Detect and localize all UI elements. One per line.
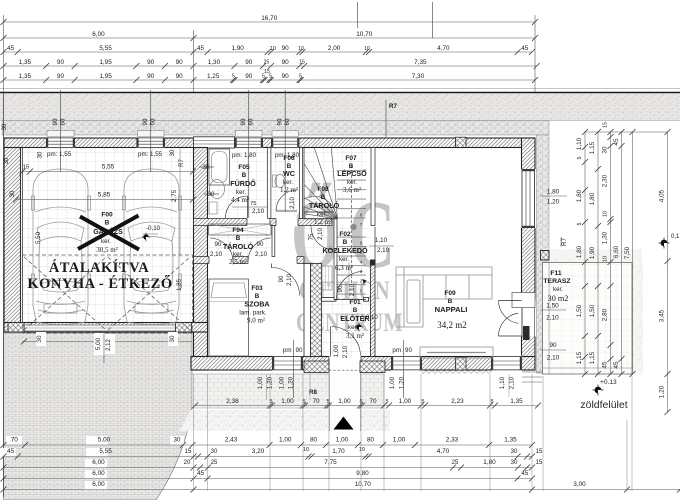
svg-text:7,30: 7,30 — [412, 73, 425, 80]
window sill bath — [236, 131, 263, 137]
svg-text:30: 30 — [203, 164, 210, 171]
storage F04 floor tiles — [208, 226, 273, 257]
pebble insulation band right side of building — [537, 135, 550, 373]
svg-text:15: 15 — [185, 449, 192, 455]
svg-text:1,10: 1,10 — [576, 137, 583, 150]
svg-text:10: 10 — [270, 46, 276, 52]
garage bottom wall with door front — [4, 323, 208, 333]
svg-text:4,70: 4,70 — [437, 45, 450, 52]
right chain line 5 — [632, 132, 634, 374]
svg-text:25: 25 — [264, 60, 270, 66]
svg-text:1,00: 1,00 — [279, 437, 292, 444]
svg-text:TÁROLÓ: TÁROLÓ — [309, 201, 340, 210]
svg-text:pm: 1,55: pm: 1,55 — [138, 151, 163, 158]
window opening garage 2 top wall — [136, 137, 165, 148]
door arc storage F04 left — [210, 238, 233, 260]
dim row openings top 2 — [4, 79, 536, 81]
svg-text:ker.: ker. — [283, 179, 293, 186]
pier block in top wall — [456, 137, 467, 147]
svg-text:90: 90 — [52, 118, 59, 125]
svg-text:30: 30 — [511, 449, 518, 455]
dim row 6,00 10,70 — [4, 37, 536, 39]
svg-text:B: B — [321, 194, 326, 201]
svg-text:1,00: 1,00 — [257, 376, 264, 389]
gravel strip right of terrace — [632, 262, 643, 375]
fireplace block living room corner — [523, 326, 530, 340]
big X cross over garage label — [80, 217, 139, 250]
car 1 in garage — [32, 169, 91, 325]
svg-text:5,55: 5,55 — [99, 45, 112, 52]
svg-text:90: 90 — [296, 347, 303, 354]
thin wall stair living room — [371, 148, 375, 226]
svg-text:1,35: 1,35 — [19, 73, 32, 80]
svg-text:6,3 m²: 6,3 m² — [335, 264, 353, 272]
door arc wc — [276, 190, 297, 211]
toilet in wc — [275, 175, 285, 188]
vertical guide line left boundary — [3, 15, 5, 92]
svg-text:F08: F08 — [317, 186, 329, 193]
svg-text:80: 80 — [310, 437, 318, 444]
svg-text:2,10: 2,10 — [318, 228, 324, 240]
hall floor tiles — [303, 226, 371, 357]
partition hall entry right stub — [364, 298, 369, 302]
svg-text:1,95: 1,95 — [99, 73, 112, 80]
window opening bathroom top wall — [235, 137, 264, 148]
svg-text:1,30: 1,30 — [602, 231, 609, 244]
level marker right — [659, 238, 670, 249]
svg-text:30,5 m²: 30,5 m² — [96, 246, 118, 254]
level marker terrace — [593, 385, 604, 396]
svg-text:2,33: 2,33 — [446, 437, 459, 444]
window sill garage 2 — [137, 131, 164, 137]
storage F04 right wall — [272, 226, 275, 257]
svg-text:+0.13: +0.13 — [600, 379, 617, 386]
dashed diagonal right bay — [108, 257, 190, 330]
svg-text:1,00: 1,00 — [338, 398, 351, 405]
svg-text:2,43: 2,43 — [225, 437, 238, 444]
svg-text:70: 70 — [369, 398, 377, 405]
svg-text:10: 10 — [359, 447, 365, 453]
dashed conversion zone outline in garage — [23, 255, 193, 333]
svg-text:1,50: 1,50 — [589, 304, 596, 317]
svg-text:45: 45 — [197, 470, 205, 477]
svg-text:5: 5 — [232, 74, 235, 80]
svg-text:3,00: 3,00 — [573, 481, 586, 488]
svg-text:30: 30 — [170, 149, 176, 156]
svg-text:2,10: 2,10 — [252, 208, 265, 215]
svg-text:10: 10 — [603, 256, 609, 262]
centre line wc window — [284, 90, 286, 212]
svg-text:3,6 m²: 3,6 m² — [343, 186, 361, 194]
junction dot in hall — [350, 224, 356, 230]
svg-text:0,1: 0,1 — [671, 234, 680, 240]
svg-text:30: 30 — [36, 335, 43, 343]
vertical dashed line garage centre — [103, 333, 105, 363]
svg-text:B: B — [448, 298, 453, 305]
door arc hall wc lobby — [311, 226, 335, 250]
door gap storage F04 right and bedroom — [248, 256, 297, 265]
crosshatched wall left of entry hall — [311, 264, 322, 357]
bottom dim row 3 — [4, 456, 533, 458]
window opening living room bottom wall — [391, 356, 422, 372]
svg-text:2,38: 2,38 — [226, 398, 239, 405]
garage front pier right — [176, 323, 192, 333]
section mark line upper 1 — [357, 2, 359, 28]
paved strip in front of house entry — [192, 374, 384, 408]
svg-text:6,00: 6,00 — [92, 481, 105, 488]
svg-text:1,00: 1,00 — [279, 376, 286, 389]
stair straight flight — [337, 165, 366, 294]
vertical extension lines bottom — [193, 374, 195, 491]
svg-text:45: 45 — [7, 448, 15, 455]
lintel box above bathroom wall segment — [194, 137, 235, 148]
svg-text:30: 30 — [169, 335, 176, 343]
svg-text:2,30: 2,30 — [602, 174, 609, 187]
svg-text:16,70: 16,70 — [261, 15, 277, 22]
window sill wc — [272, 131, 298, 137]
garage dividing wall to rooms — [194, 148, 208, 371]
svg-text:25: 25 — [452, 460, 459, 466]
svg-text:4,05: 4,05 — [659, 189, 666, 202]
svg-text:90: 90 — [337, 285, 344, 293]
svg-text:1,15: 1,15 — [576, 351, 583, 364]
svg-text:2,10: 2,10 — [349, 283, 356, 296]
svg-text:15: 15 — [536, 449, 543, 455]
svg-text:1,20: 1,20 — [547, 199, 560, 206]
svg-text:90: 90 — [257, 241, 264, 248]
svg-text:1,80: 1,80 — [576, 189, 583, 202]
bathtub in bathroom — [209, 149, 230, 185]
svg-text:70: 70 — [11, 437, 19, 444]
svg-text:90: 90 — [142, 118, 149, 125]
svg-text:F04: F04 — [232, 227, 244, 234]
svg-text:75: 75 — [250, 201, 256, 207]
svg-text:45: 45 — [521, 45, 529, 52]
street band top edge thick line — [0, 92, 680, 94]
svg-text:60: 60 — [248, 118, 255, 125]
pillow on bed — [211, 283, 247, 298]
svg-text:1,90: 1,90 — [589, 246, 596, 259]
svg-text:1,20: 1,20 — [399, 376, 406, 389]
svg-text:7,35: 7,35 — [414, 59, 427, 66]
interior wall below bath-wc-stair row — [194, 219, 333, 226]
window sill label right 1,80 — [540, 195, 567, 197]
svg-text:7,75: 7,75 — [324, 459, 337, 466]
svg-text:3,20: 3,20 — [252, 448, 265, 455]
svg-text:zöldfelület: zöldfelület — [580, 399, 627, 411]
svg-text:2,10: 2,10 — [547, 355, 560, 362]
svg-text:-0,10: -0,10 — [146, 225, 161, 232]
svg-text:90: 90 — [282, 59, 290, 66]
entry pier right crosshatched — [360, 361, 385, 373]
svg-text:lam. park.: lam. park. — [239, 310, 266, 317]
centre line garage window 1 — [60, 90, 62, 172]
wc floor tiles — [271, 148, 300, 219]
svg-text:WC: WC — [283, 169, 295, 178]
partition hall entry left stub — [322, 298, 337, 302]
svg-text:10: 10 — [298, 46, 304, 52]
svg-text:R8: R8 — [309, 389, 317, 396]
svg-text:1,25: 1,25 — [207, 73, 220, 80]
svg-text:F00: F00 — [101, 212, 113, 219]
window opening bedroom bottom wall — [272, 356, 303, 372]
svg-text:2,12: 2,12 — [106, 339, 112, 351]
svg-text:2,10: 2,10 — [342, 345, 349, 358]
terrace corner pillar — [541, 251, 550, 261]
svg-text:ker.: ker. — [233, 251, 243, 258]
right chain line 1 — [584, 132, 586, 374]
svg-text:90: 90 — [176, 59, 184, 66]
door arc entry — [332, 327, 361, 356]
car 2 in garage — [123, 169, 182, 325]
svg-text:5,85: 5,85 — [98, 192, 111, 199]
svg-text:30: 30 — [4, 157, 10, 164]
svg-text:1,00: 1,00 — [393, 437, 406, 444]
right chain line outer — [667, 132, 669, 412]
svg-text:R7: R7 — [561, 237, 568, 245]
halo boxes for dim texts over driveway — [6, 436, 22, 445]
svg-text:ker.: ker. — [236, 189, 246, 196]
svg-text:90: 90 — [279, 275, 285, 282]
bottom dim row 4 — [4, 467, 533, 469]
small cabinet bathroom — [209, 202, 217, 214]
dim row room widths top — [4, 51, 532, 53]
shaft wall right of bedroom — [304, 264, 311, 357]
sideboard at bottom wall living room — [420, 347, 493, 358]
street band bottom edge — [0, 120, 680, 122]
svg-text:2,10: 2,10 — [255, 251, 268, 258]
svg-text:1,80: 1,80 — [589, 192, 596, 205]
svg-text:30: 30 — [174, 437, 181, 444]
svg-text:75: 75 — [309, 233, 315, 240]
svg-text:FÜRDŐ: FÜRDŐ — [230, 179, 256, 188]
svg-text:3,1 m²: 3,1 m² — [346, 332, 364, 340]
svg-text:TÁROLÓ: TÁROLÓ — [223, 242, 254, 251]
entry direction triangle — [334, 417, 354, 430]
dim row openings top — [4, 65, 537, 67]
svg-text:10,70: 10,70 — [356, 31, 372, 38]
svg-text:5,50: 5,50 — [35, 231, 42, 244]
stair winder fan — [304, 148, 338, 219]
svg-text:10,70: 10,70 — [355, 481, 371, 488]
svg-text:3,45: 3,45 — [659, 309, 666, 322]
svg-text:F05: F05 — [238, 164, 250, 171]
svg-text:7,50: 7,50 — [624, 246, 631, 259]
svg-text:45: 45 — [613, 138, 620, 146]
interior wall between storage and bedroom — [194, 257, 305, 264]
svg-text:1,95: 1,95 — [99, 59, 112, 66]
thin wall wc stair — [299, 148, 302, 219]
svg-text:1,10: 1,10 — [499, 376, 506, 389]
svg-text:15: 15 — [603, 122, 609, 128]
garage door leaf band — [24, 325, 176, 331]
svg-text:90: 90 — [549, 342, 557, 349]
svg-text:90: 90 — [277, 118, 284, 125]
svg-text:1,2 m²: 1,2 m² — [314, 218, 332, 226]
svg-text:5: 5 — [299, 74, 302, 80]
svg-text:5,00: 5,00 — [98, 437, 111, 444]
section mark line upper 2 — [432, 2, 434, 38]
svg-text:ker.: ker. — [339, 256, 349, 263]
svg-text:90: 90 — [57, 73, 65, 80]
svg-text:5,55: 5,55 — [102, 164, 115, 171]
dark jamb block top of entry right wall — [370, 260, 376, 266]
svg-text:ker.: ker. — [553, 286, 563, 293]
door gap wc hall — [276, 218, 298, 227]
centre line bathroom window — [248, 90, 250, 218]
svg-text:5: 5 — [385, 399, 388, 405]
door swing arrow hall entry — [362, 279, 367, 284]
svg-text:B: B — [105, 220, 110, 227]
street band across top — [0, 94, 680, 121]
svg-text:10: 10 — [303, 447, 309, 453]
svg-text:GARÁZS: GARÁZS — [93, 227, 123, 236]
svg-text:F07: F07 — [345, 155, 357, 162]
svg-text:30: 30 — [602, 146, 609, 154]
svg-text:1,90: 1,90 — [231, 45, 244, 52]
svg-text:pm: pm — [392, 347, 401, 354]
svg-text:10: 10 — [603, 211, 609, 217]
svg-text:90: 90 — [282, 73, 290, 80]
svg-text:pm: 1,80: pm: 1,80 — [232, 152, 257, 159]
entry pier left crosshatched — [304, 361, 329, 373]
svg-text:B: B — [236, 235, 241, 242]
svg-text:5: 5 — [421, 399, 424, 405]
top exterior wall — [4, 138, 535, 148]
svg-text:5: 5 — [490, 399, 493, 405]
svg-text:5: 5 — [577, 223, 583, 226]
svg-text:70: 70 — [312, 398, 320, 405]
svg-text:2,5 m²: 2,5 m² — [229, 258, 247, 266]
door arc bedroom — [272, 268, 300, 296]
bottom small dim row at paving edge — [195, 405, 538, 407]
svg-text:6,00: 6,00 — [92, 470, 105, 477]
svg-text:1,35: 1,35 — [19, 59, 32, 66]
svg-text:30: 30 — [208, 191, 215, 198]
svg-text:30: 30 — [211, 449, 218, 455]
svg-text:2,10: 2,10 — [210, 251, 223, 258]
pebble insulation band above building — [2, 121, 549, 136]
window opening living room bottom wall 2 — [491, 356, 522, 372]
svg-text:1,80: 1,80 — [547, 189, 560, 196]
svg-text:pm: pm — [283, 347, 292, 354]
opening hall to living room — [374, 227, 376, 262]
centre line garage window 2 — [150, 90, 152, 172]
garage front pier left — [8, 323, 24, 333]
svg-text:2,75: 2,75 — [171, 189, 178, 202]
washbasin in bathroom — [210, 180, 225, 199]
svg-text:1,80: 1,80 — [483, 459, 496, 466]
entry door opening bottom wall — [329, 356, 361, 372]
vertical guide 6m split — [193, 30, 195, 92]
svg-text:1,2 m²: 1,2 m² — [280, 186, 298, 194]
door arc storage F04 right — [248, 238, 271, 260]
svg-text:2,80: 2,80 — [602, 308, 609, 321]
svg-text:pm: 1,55: pm: 1,55 — [47, 151, 72, 158]
stair room divider under stairs — [304, 211, 334, 213]
svg-text:NAPPALI: NAPPALI — [435, 305, 468, 314]
svg-text:1,15: 1,15 — [589, 141, 596, 154]
svg-text:90: 90 — [147, 59, 155, 66]
svg-text:90: 90 — [57, 59, 65, 66]
window sill garage 1 — [47, 131, 74, 137]
svg-text:90: 90 — [240, 118, 247, 125]
svg-text:1,35: 1,35 — [510, 398, 523, 405]
svg-text:B: B — [242, 172, 247, 179]
svg-text:B: B — [343, 239, 348, 246]
svg-text:2,23: 2,23 — [451, 398, 464, 405]
svg-text:1,20: 1,20 — [659, 385, 666, 398]
dark pier block bottom wall — [456, 357, 467, 370]
svg-text:15: 15 — [536, 460, 543, 466]
svg-text:10: 10 — [364, 46, 370, 52]
bed in bedroom F03 — [209, 279, 249, 356]
stair room floor tiles — [303, 148, 367, 219]
svg-text:ker.: ker. — [317, 211, 327, 218]
svg-text:F11: F11 — [550, 270, 562, 277]
right chain line 2 — [597, 132, 599, 374]
svg-text:2,10: 2,10 — [287, 274, 293, 286]
svg-text:90: 90 — [405, 347, 412, 354]
svg-text:ker.: ker. — [347, 179, 357, 186]
svg-text:2,10: 2,10 — [377, 247, 390, 254]
svg-text:20: 20 — [184, 460, 191, 466]
svg-text:90: 90 — [176, 73, 184, 80]
svg-text:1,10: 1,10 — [375, 237, 388, 244]
svg-text:F09: F09 — [444, 290, 456, 297]
svg-text:15: 15 — [23, 165, 29, 171]
svg-text:F02: F02 — [339, 231, 351, 238]
svg-text:2,10: 2,10 — [509, 376, 516, 389]
svg-text:6,00: 6,00 — [92, 31, 105, 38]
svg-text:6,00: 6,00 — [92, 459, 105, 466]
garage left exterior wall — [4, 138, 21, 332]
wardrobe shelf in storage F04 — [209, 224, 272, 235]
svg-text:9,0 m²: 9,0 m² — [247, 317, 265, 325]
bottom dim row 5 — [4, 478, 533, 480]
svg-text:4,70: 4,70 — [437, 448, 450, 455]
terrace step lines at corner — [522, 371, 542, 373]
white walkway from entry door — [330, 373, 361, 431]
svg-text:60: 60 — [284, 118, 291, 125]
svg-text:B: B — [353, 307, 358, 314]
bottom exterior wall — [191, 357, 535, 371]
svg-text:2,10: 2,10 — [290, 197, 296, 209]
svg-text:2,10: 2,10 — [546, 315, 559, 322]
svg-text:30: 30 — [38, 151, 44, 158]
svg-text:30: 30 — [2, 123, 8, 130]
terrace door open leaf rect — [512, 293, 535, 308]
bottom dim row 2 — [4, 444, 533, 446]
svg-text:SZOBA: SZOBA — [244, 300, 269, 309]
svg-text:1,50: 1,50 — [546, 303, 559, 310]
svg-text:LÉPCSŐ: LÉPCSŐ — [337, 169, 367, 178]
svg-text:1,00: 1,00 — [333, 344, 340, 357]
watermark logo OC — [291, 181, 403, 338]
svg-text:4,4 m²: 4,4 m² — [231, 196, 249, 204]
right chain line 4 — [621, 132, 623, 374]
svg-text:90: 90 — [245, 59, 253, 66]
door arc bathroom — [226, 196, 248, 218]
terrace outline F11 — [543, 263, 633, 375]
svg-text:F03: F03 — [251, 285, 263, 292]
insulation zigzag below bottom wall — [420, 371, 492, 374]
svg-text:30: 30 — [511, 460, 518, 466]
svg-text:F06: F06 — [283, 155, 295, 162]
roof line R7 marker top — [385, 100, 387, 137]
dashed diagonal left bay — [24, 257, 106, 330]
svg-text:45: 45 — [613, 361, 620, 369]
